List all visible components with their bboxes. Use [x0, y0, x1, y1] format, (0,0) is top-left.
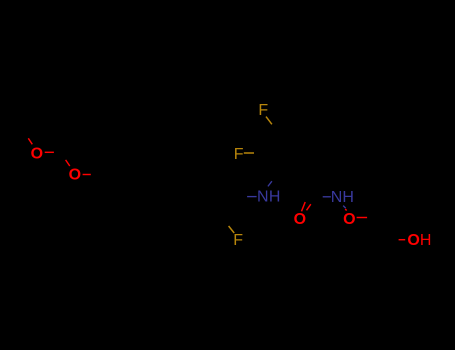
- bond F3-ring: [229, 226, 235, 233]
- svg-text:F: F: [233, 232, 243, 249]
- bond C(O)-N2 (blue half): [323, 196, 331, 198]
- bond N2-O4 red half: [345, 209, 346, 211]
- svg-text:F: F: [258, 102, 268, 119]
- svg-text:N: N: [257, 189, 269, 206]
- bond CH2-OH (red half): [399, 239, 406, 241]
- bond O2-ring A: [83, 174, 91, 176]
- svg-text:N: N: [331, 189, 343, 206]
- svg-text:O: O: [31, 146, 43, 163]
- svg-text:O: O: [343, 211, 355, 228]
- bond N1-central ring: [268, 181, 272, 186]
- bond CH3-O1 (red half): [28, 138, 32, 144]
- svg-text:O: O: [407, 232, 419, 249]
- carbonyl C=O double bond (red halves): [302, 202, 306, 211]
- svg-text:H: H: [342, 189, 354, 206]
- bond O4-CH2: [357, 217, 368, 219]
- svg-text:F: F: [234, 146, 244, 163]
- svg-text:O: O: [69, 167, 81, 184]
- bond F2-ring: [244, 152, 254, 154]
- bond N2-O4 blue half: [343, 206, 346, 209]
- bond CH2-O2: [66, 160, 70, 166]
- second line of C=O: [307, 204, 311, 210]
- bond O1-CH2: [45, 151, 54, 153]
- svg-text:O: O: [294, 211, 306, 228]
- bond ring B-N1 (blue half): [247, 196, 257, 198]
- bond F1-ring: [266, 117, 272, 125]
- svg-text:H: H: [420, 232, 432, 249]
- svg-text:H: H: [269, 189, 281, 206]
- carbon skeleton (black on black, invisible): [21, 132, 392, 240]
